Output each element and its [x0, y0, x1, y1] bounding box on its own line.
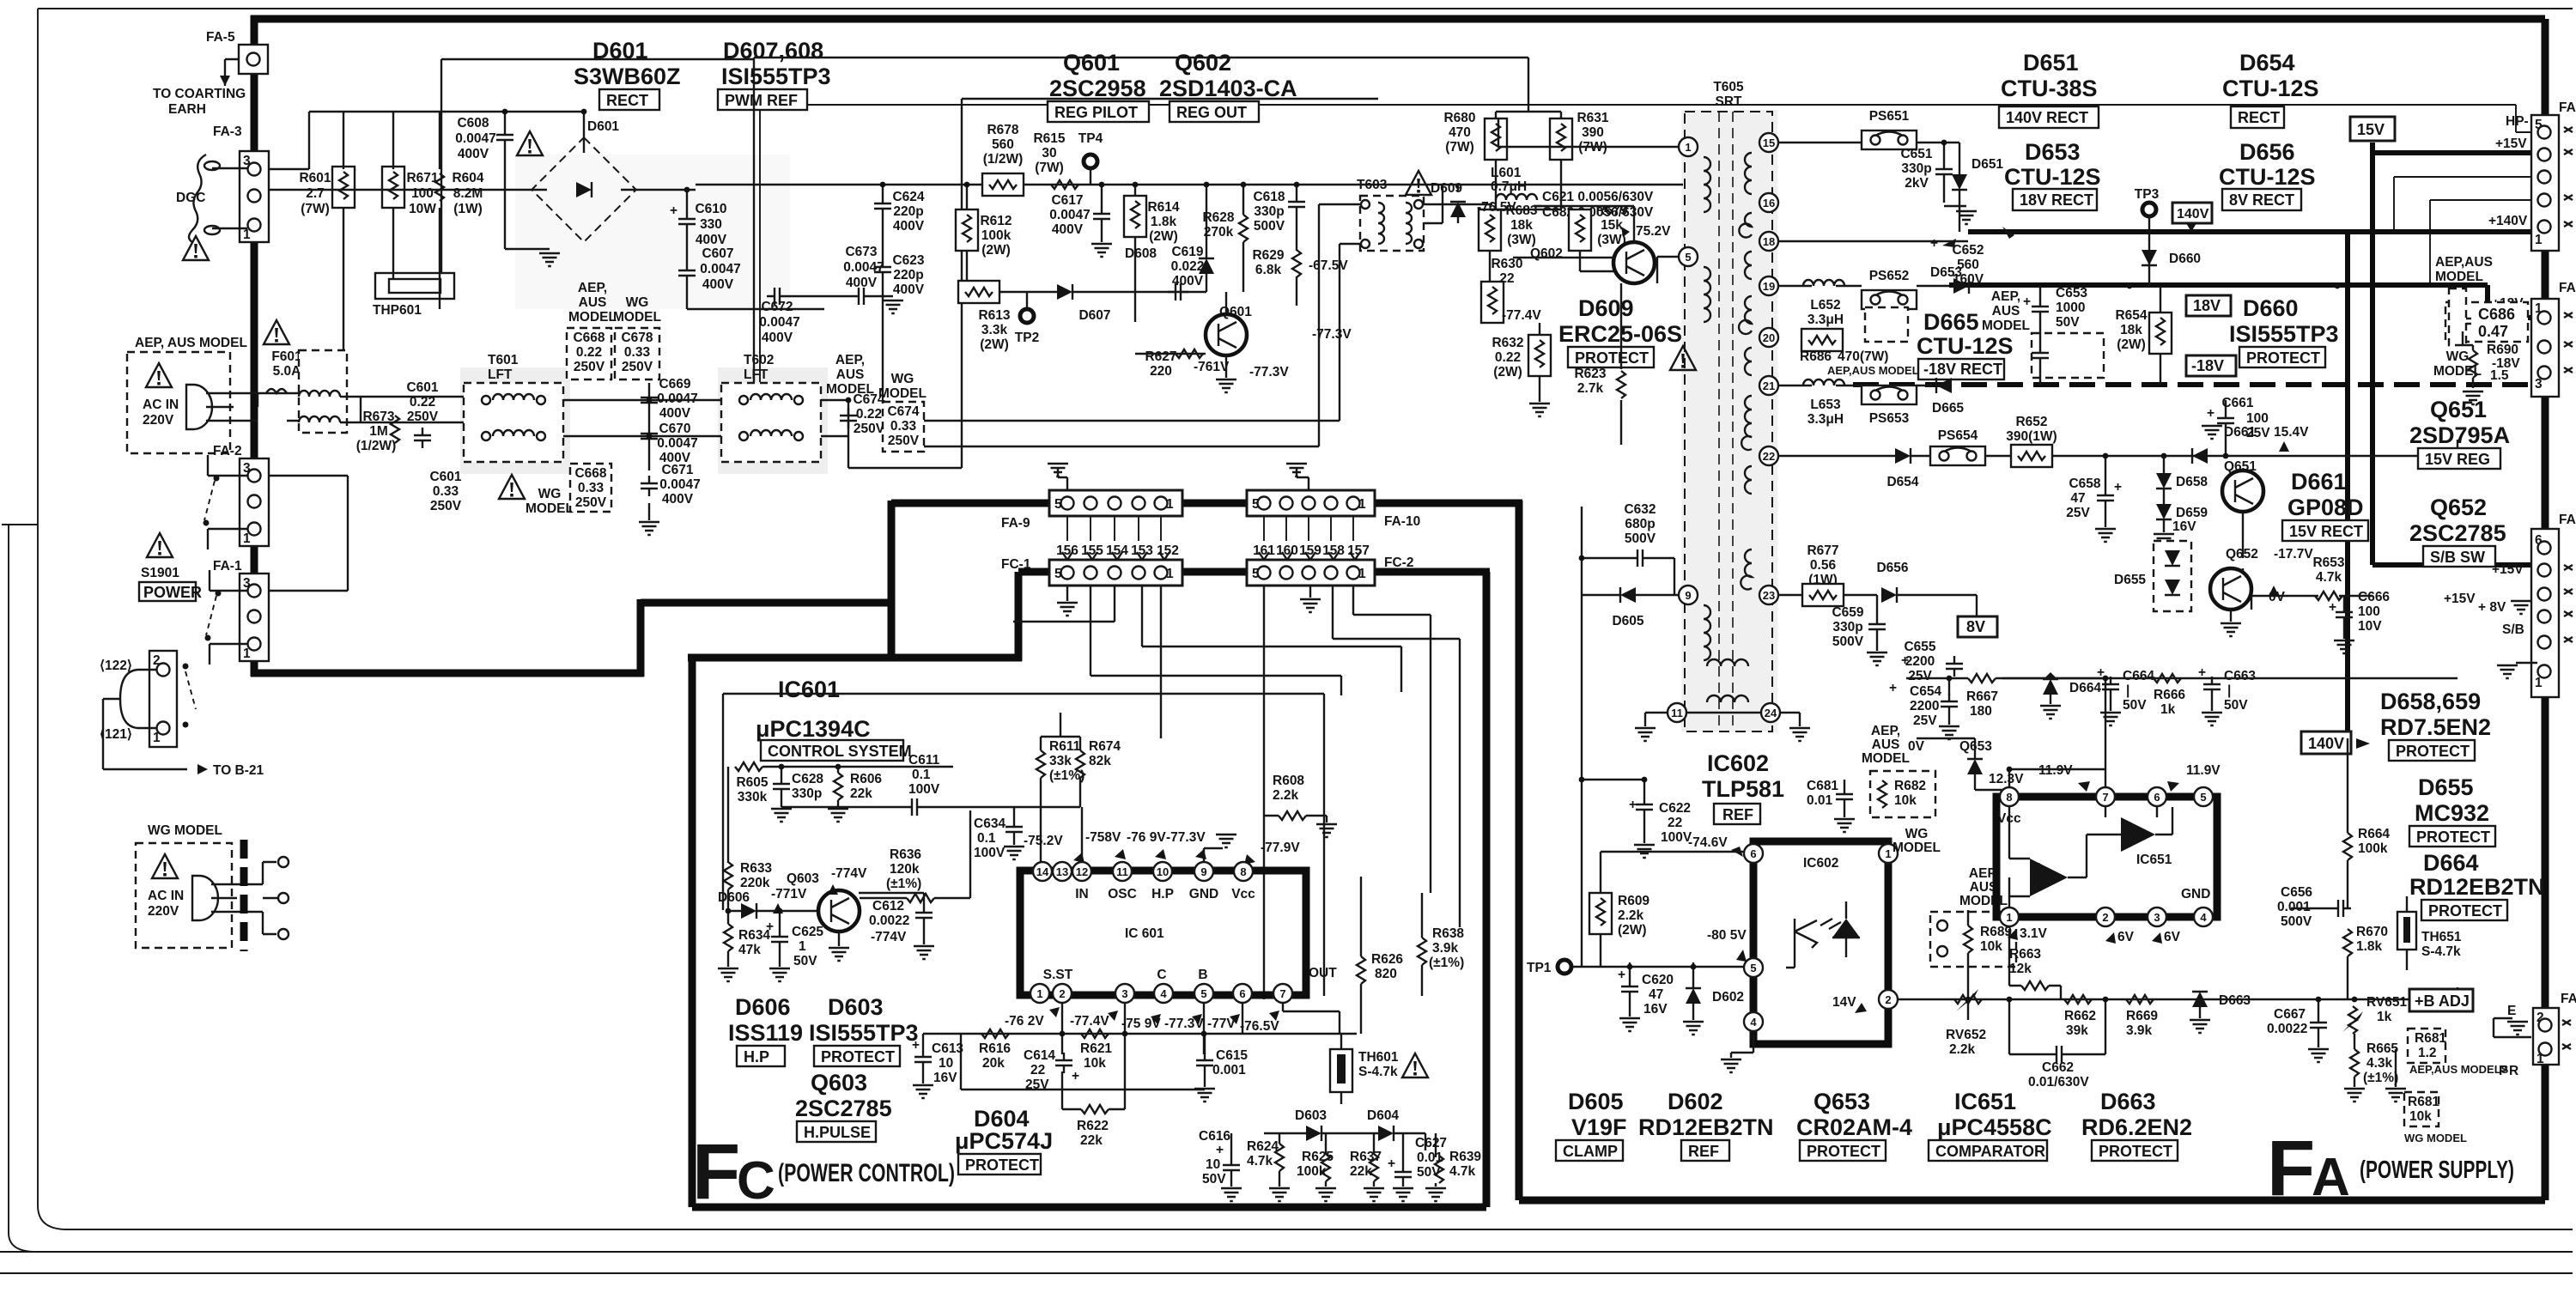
svg-text:D663: D663 — [2100, 1089, 2156, 1114]
svg-text:400V: 400V — [1052, 222, 1084, 237]
svg-text:WG: WG — [626, 295, 649, 310]
svg-text:153: 153 — [1131, 543, 1153, 558]
svg-text:25V: 25V — [1908, 669, 1932, 683]
svg-text:-76.5V: -76.5V — [1477, 200, 1516, 215]
svg-text:R686: R686 — [1800, 349, 1832, 364]
svg-text:+: + — [766, 920, 774, 934]
svg-text:5: 5 — [2200, 791, 2206, 804]
svg-text:FA-5: FA-5 — [206, 30, 235, 45]
svg-text:T601: T601 — [488, 353, 519, 367]
svg-text:R669: R669 — [2126, 1009, 2158, 1023]
svg-text:25V: 25V — [1913, 713, 1937, 728]
svg-text:140V: 140V — [2177, 207, 2209, 222]
svg-text:330: 330 — [700, 217, 722, 232]
svg-text:(2W): (2W) — [980, 337, 1009, 352]
svg-text:1: 1 — [1885, 847, 1891, 860]
svg-text:33k: 33k — [1049, 754, 1072, 768]
svg-text:1: 1 — [1685, 141, 1691, 154]
svg-text:IC 601: IC 601 — [1125, 926, 1164, 941]
svg-text:2SD795A: 2SD795A — [2409, 422, 2510, 448]
svg-text:180: 180 — [1970, 704, 1992, 719]
svg-text:156: 156 — [1056, 543, 1078, 558]
svg-text:D608: D608 — [1125, 246, 1157, 261]
svg-text:820: 820 — [1375, 967, 1397, 981]
svg-text:ISI555TP3: ISI555TP3 — [2229, 321, 2339, 347]
svg-text:PS653: PS653 — [1869, 411, 1910, 426]
svg-text:0.33: 0.33 — [578, 481, 605, 495]
svg-text:0.33: 0.33 — [624, 345, 651, 360]
svg-text:(3W): (3W) — [1507, 233, 1536, 247]
svg-text:PROTECT: PROTECT — [2428, 902, 2502, 920]
svg-text:2200: 2200 — [1910, 699, 1939, 713]
svg-text:8.2M: 8.2M — [453, 186, 483, 201]
svg-text:470: 470 — [1449, 125, 1471, 140]
svg-text:2.2k: 2.2k — [1618, 908, 1644, 923]
svg-text:IC602: IC602 — [1803, 856, 1838, 871]
svg-text:-774V: -774V — [831, 866, 867, 881]
svg-text:680p: 680p — [1625, 517, 1655, 531]
svg-text:R665: R665 — [2366, 1041, 2398, 1056]
svg-text:C668: C668 — [574, 466, 606, 481]
svg-text:50V: 50V — [2056, 315, 2080, 330]
svg-text:8: 8 — [2006, 791, 2012, 804]
svg-text:C651: C651 — [1900, 147, 1932, 161]
svg-text:RECT: RECT — [606, 92, 648, 109]
svg-text:WG: WG — [1905, 827, 1929, 841]
svg-text:-67.5V: -67.5V — [1309, 258, 1348, 273]
svg-text:MODEL: MODEL — [613, 310, 661, 325]
svg-text:D660: D660 — [2243, 295, 2299, 321]
svg-text:TP3: TP3 — [2135, 187, 2160, 202]
svg-text:D656: D656 — [2239, 139, 2295, 165]
svg-text:ISI555TP3: ISI555TP3 — [809, 1020, 919, 1046]
svg-text:+: + — [2035, 859, 2043, 874]
svg-text:0.0047: 0.0047 — [759, 315, 799, 330]
svg-text:C608: C608 — [457, 116, 489, 131]
svg-text:Q603: Q603 — [811, 1070, 867, 1096]
svg-text:-74.6V: -74.6V — [1688, 835, 1728, 850]
svg-text:(1W): (1W) — [453, 202, 483, 216]
svg-text:R613: R613 — [978, 308, 1010, 323]
svg-text:GP08D: GP08D — [2287, 495, 2364, 520]
svg-text:2SC2958: 2SC2958 — [1049, 76, 1146, 101]
svg-text:S-4.7k: S-4.7k — [1358, 1065, 1398, 1079]
svg-text:C667: C667 — [2274, 1007, 2306, 1022]
svg-text:18V RECT: 18V RECT — [2020, 191, 2093, 209]
svg-text:D659: D659 — [2176, 506, 2208, 520]
svg-text:3.3μH: 3.3μH — [1807, 412, 1844, 427]
svg-text:C623: C623 — [892, 253, 924, 268]
svg-text:6V: 6V — [2117, 930, 2135, 944]
svg-text:6: 6 — [1239, 987, 1245, 1000]
svg-text:-77.4V: -77.4V — [1070, 1014, 1109, 1029]
svg-text:1: 1 — [2537, 1052, 2544, 1066]
svg-text:6.8k: 6.8k — [1255, 263, 1282, 277]
svg-text:CLAMP: CLAMP — [1563, 1143, 1618, 1160]
svg-text:IN: IN — [1075, 887, 1089, 901]
svg-text:Q651: Q651 — [2224, 459, 2257, 474]
svg-text:MODEL: MODEL — [1982, 319, 2030, 333]
svg-text:REF: REF — [1722, 806, 1753, 823]
svg-text:3.9k: 3.9k — [1432, 941, 1459, 956]
svg-text:270k: 270k — [1204, 225, 1234, 240]
svg-text:FA: FA — [2559, 100, 2576, 115]
svg-text:C607: C607 — [702, 246, 733, 261]
svg-text:(7W): (7W) — [1445, 140, 1474, 155]
svg-text:-18V: -18V — [2191, 357, 2224, 374]
svg-text:AUS: AUS — [1992, 304, 2020, 319]
svg-text:R604: R604 — [452, 171, 483, 185]
svg-text:1: 1 — [2006, 911, 2012, 924]
svg-text:ISS119: ISS119 — [728, 1020, 803, 1046]
svg-text:IC602: IC602 — [1707, 750, 1769, 776]
svg-text:C652: C652 — [1952, 243, 1984, 258]
svg-text:0.47: 0.47 — [2478, 323, 2508, 340]
svg-text:0.56: 0.56 — [1810, 558, 1837, 573]
svg-text:100k: 100k — [981, 228, 1012, 243]
svg-text:+15V: +15V — [2492, 562, 2524, 577]
svg-text:MODEL: MODEL — [1862, 751, 1910, 766]
svg-text:PROTECT: PROTECT — [965, 1156, 1039, 1174]
svg-text:8: 8 — [1240, 865, 1246, 878]
svg-text:3.9k: 3.9k — [2126, 1023, 2153, 1038]
svg-text:400V: 400V — [893, 282, 925, 297]
svg-text:(2W): (2W) — [2117, 337, 2146, 352]
svg-text:T605: T605 — [1713, 80, 1744, 94]
svg-text:100V: 100V — [974, 846, 1005, 860]
svg-text:+: + — [912, 1038, 920, 1053]
svg-text:|: | — [2227, 683, 2231, 698]
svg-text:4: 4 — [1750, 1016, 1757, 1029]
svg-text:39k: 39k — [2066, 1023, 2088, 1038]
svg-text:R639: R639 — [1449, 1150, 1481, 1164]
svg-text:15V RECT: 15V RECT — [2289, 523, 2363, 540]
svg-text:10: 10 — [1206, 1157, 1220, 1172]
svg-text:1M: 1M — [369, 424, 388, 439]
svg-text:3: 3 — [2154, 911, 2160, 924]
svg-text:MC932: MC932 — [2415, 800, 2489, 826]
svg-text:25V: 25V — [2246, 426, 2270, 440]
svg-text:WG: WG — [891, 372, 914, 386]
svg-text:50V: 50V — [793, 954, 817, 968]
svg-text:MODEL: MODEL — [568, 310, 617, 325]
svg-text:L653: L653 — [1810, 398, 1841, 412]
svg-text:Q602: Q602 — [1175, 50, 1231, 76]
svg-text:C613: C613 — [932, 1041, 963, 1056]
svg-text:15V: 15V — [2357, 121, 2385, 138]
svg-text:REG OUT: REG OUT — [1176, 104, 1247, 121]
svg-text:⟨121⟩: ⟨121⟩ — [100, 727, 132, 742]
svg-text:2.7: 2.7 — [306, 186, 325, 201]
svg-text:0.01: 0.01 — [1807, 793, 1833, 808]
svg-text:16V: 16V — [1643, 1002, 1668, 1017]
svg-text:TLP581: TLP581 — [1702, 776, 1784, 802]
svg-text:C615: C615 — [1216, 1048, 1248, 1063]
svg-text:220p: 220p — [893, 268, 923, 282]
svg-text:-774V: -774V — [871, 930, 907, 944]
svg-text:+: + — [670, 203, 677, 218]
svg-text:R621: R621 — [1080, 1041, 1112, 1056]
svg-text:2kV: 2kV — [1905, 176, 1929, 191]
svg-text:1000: 1000 — [2056, 300, 2085, 315]
svg-text:15V REG: 15V REG — [2425, 451, 2490, 468]
svg-text:H.P: H.P — [744, 1048, 769, 1065]
svg-text:400V: 400V — [702, 277, 734, 292]
svg-text:D606: D606 — [718, 890, 750, 905]
svg-text:D605: D605 — [1568, 1089, 1624, 1114]
svg-text:-771V: -771V — [771, 887, 807, 901]
svg-text:C624: C624 — [892, 190, 924, 204]
svg-text:S1901: S1901 — [141, 566, 179, 580]
svg-text:R638: R638 — [1432, 926, 1464, 941]
svg-text:S/B SW: S/B SW — [2430, 549, 2485, 566]
svg-text:25V: 25V — [1025, 1077, 1049, 1092]
svg-text:220: 220 — [1150, 364, 1172, 379]
svg-text:5: 5 — [1750, 962, 1756, 974]
svg-text:2.2k: 2.2k — [1949, 1042, 1976, 1057]
svg-text:RECT: RECT — [2238, 109, 2280, 126]
svg-text:EARH: EARH — [168, 102, 206, 117]
svg-text:75.2V: 75.2V — [1636, 224, 1671, 239]
svg-text:2SC2785: 2SC2785 — [2409, 520, 2506, 546]
svg-text:TP1: TP1 — [1527, 961, 1552, 975]
svg-text:C670: C670 — [659, 422, 690, 436]
svg-text:0.01/630V: 0.01/630V — [2028, 1075, 2089, 1090]
svg-text:10k: 10k — [1084, 1056, 1106, 1071]
svg-text:(1/2W): (1/2W) — [356, 439, 397, 453]
svg-text:TP4: TP4 — [1078, 131, 1103, 146]
svg-text:1: 1 — [799, 939, 806, 954]
svg-text:TH651: TH651 — [2421, 930, 2462, 944]
svg-text:R622: R622 — [1077, 1119, 1109, 1133]
svg-text:1: 1 — [243, 531, 251, 546]
svg-text:CR02AM-4: CR02AM-4 — [1796, 1114, 1912, 1140]
svg-text:FA-1: FA-1 — [213, 559, 242, 574]
svg-text:R631: R631 — [1577, 111, 1608, 125]
svg-text:0.022: 0.022 — [1171, 259, 1205, 274]
svg-text:161: 161 — [1253, 543, 1275, 558]
svg-text:100V: 100V — [908, 782, 940, 797]
svg-text:(7W): (7W) — [1035, 161, 1064, 175]
svg-text:R: R — [2509, 1064, 2518, 1078]
svg-text:PROTECT: PROTECT — [821, 1048, 895, 1065]
svg-text:C658: C658 — [2069, 477, 2100, 491]
svg-text:D661: D661 — [2291, 469, 2347, 495]
svg-text:50V: 50V — [2224, 698, 2248, 713]
svg-text:0.22: 0.22 — [576, 345, 602, 360]
svg-text:0.33: 0.33 — [890, 419, 917, 434]
svg-text:R662: R662 — [2064, 1009, 2096, 1023]
svg-text:D664: D664 — [2069, 681, 2101, 695]
svg-text:R682: R682 — [1894, 779, 1926, 793]
svg-text:9: 9 — [1200, 865, 1206, 878]
svg-text:47k: 47k — [738, 943, 761, 957]
svg-text:10k: 10k — [1980, 939, 2002, 954]
svg-text:500V: 500V — [1254, 219, 1285, 234]
svg-text:+: + — [2329, 600, 2336, 615]
svg-text:(2W): (2W) — [981, 243, 1011, 258]
svg-text:4.7k: 4.7k — [1449, 1164, 1476, 1179]
svg-text:R606: R606 — [850, 772, 882, 786]
svg-text:18k: 18k — [2120, 323, 2142, 337]
svg-text:R630: R630 — [1491, 257, 1522, 271]
svg-text:μPC1394C: μPC1394C — [756, 716, 871, 742]
svg-text:(1/2W): (1/2W) — [983, 152, 1024, 167]
svg-text:9: 9 — [1685, 589, 1691, 602]
svg-text:20k: 20k — [982, 1056, 1005, 1071]
svg-text:FA: FA — [2561, 992, 2576, 1006]
svg-text:154: 154 — [1106, 543, 1128, 558]
svg-text:D605: D605 — [1612, 614, 1643, 628]
svg-text:AEP,: AEP, — [835, 353, 865, 367]
svg-text:-758V: -758V — [1085, 830, 1121, 845]
svg-text:24: 24 — [1765, 707, 1777, 719]
svg-text:PROTECT: PROTECT — [1807, 1143, 1880, 1160]
svg-text:R611: R611 — [1049, 739, 1081, 754]
svg-text:220p: 220p — [893, 204, 923, 219]
svg-text:1k: 1k — [2160, 702, 2176, 717]
svg-text:RV651: RV651 — [2366, 995, 2407, 1010]
svg-text:250V: 250V — [575, 495, 607, 510]
svg-text:Vcc: Vcc — [1231, 887, 1255, 901]
svg-text:PS654: PS654 — [1938, 428, 1978, 443]
svg-text:330k: 330k — [738, 790, 768, 804]
svg-text:RV652: RV652 — [1946, 1028, 1986, 1042]
svg-text:1: 1 — [243, 646, 251, 661]
svg-text:-17.7V: -17.7V — [2274, 547, 2313, 561]
svg-text:(±1%): (±1%) — [1429, 956, 1464, 970]
svg-text:R626: R626 — [1371, 952, 1403, 967]
svg-text:Q601: Q601 — [1063, 50, 1120, 76]
svg-text:470(7W): 470(7W) — [1838, 349, 1888, 364]
svg-text:⟨122⟩: ⟨122⟩ — [100, 659, 132, 673]
svg-text:22k: 22k — [1350, 1164, 1372, 1179]
svg-text:FC-2: FC-2 — [1384, 555, 1413, 570]
svg-text:400V: 400V — [662, 492, 694, 507]
svg-text:100k: 100k — [2358, 841, 2388, 856]
svg-text:250V: 250V — [574, 360, 605, 374]
svg-text:WG MODEL: WG MODEL — [2404, 1132, 2467, 1144]
svg-text:1: 1 — [1036, 987, 1042, 1000]
svg-text:PWM REF: PWM REF — [725, 92, 798, 109]
svg-text:1.8k: 1.8k — [1151, 215, 1177, 229]
svg-text:400V: 400V — [659, 406, 691, 421]
svg-text:1: 1 — [153, 731, 161, 745]
svg-text:C625: C625 — [792, 925, 823, 939]
svg-text:C632: C632 — [1624, 502, 1656, 517]
svg-text:2: 2 — [1885, 993, 1891, 1006]
svg-text:C654: C654 — [1910, 684, 1941, 699]
svg-text:AEP,AUS MODELS: AEP,AUS MODELS — [2409, 1063, 2509, 1076]
svg-text:R636: R636 — [890, 847, 921, 862]
svg-text:5.0A: 5.0A — [273, 364, 301, 379]
svg-text:+: + — [1629, 798, 1637, 812]
svg-text:2.2k: 2.2k — [1273, 788, 1299, 803]
svg-text:22k: 22k — [1080, 1133, 1103, 1148]
svg-text:82k: 82k — [1089, 754, 1111, 768]
svg-text:AUS: AUS — [1872, 738, 1900, 752]
svg-text:μPC4558C: μPC4558C — [1937, 1114, 2052, 1140]
svg-text:6: 6 — [1750, 847, 1756, 860]
svg-text:155: 155 — [1081, 543, 1103, 558]
svg-text:MODEL: MODEL — [1893, 841, 1941, 855]
svg-text:A: A — [2312, 1148, 2350, 1207]
svg-text:R690: R690 — [2487, 343, 2518, 357]
svg-text:OSC: OSC — [1108, 887, 1137, 901]
svg-text:C656: C656 — [2281, 885, 2312, 900]
svg-text:400V: 400V — [762, 331, 793, 345]
svg-text:159: 159 — [1299, 543, 1321, 558]
svg-text:100: 100 — [2246, 411, 2269, 426]
svg-text:12k: 12k — [2009, 962, 2032, 976]
svg-text:22: 22 — [1763, 450, 1775, 463]
svg-text:400V: 400V — [458, 147, 489, 161]
svg-text:50V: 50V — [1202, 1172, 1226, 1187]
svg-text:0.0047: 0.0047 — [659, 477, 700, 492]
svg-text:MODEL: MODEL — [2435, 270, 2483, 284]
svg-text:18k: 18k — [1510, 218, 1533, 233]
svg-text:330p: 330p — [1254, 204, 1284, 219]
svg-text:R633: R633 — [740, 861, 772, 876]
svg-text:18: 18 — [1763, 235, 1775, 248]
svg-text:8V RECT: 8V RECT — [2229, 191, 2294, 209]
svg-text:C671: C671 — [661, 463, 693, 477]
svg-text:AEP, AUS MODEL: AEP, AUS MODEL — [135, 336, 247, 350]
svg-text:CTU-12S: CTU-12S — [2222, 76, 2319, 101]
svg-text:C668: C668 — [573, 331, 605, 345]
svg-text:+ 8V: + 8V — [2478, 600, 2506, 615]
svg-text:2SC2785: 2SC2785 — [795, 1096, 892, 1121]
svg-text:D604: D604 — [1367, 1108, 1399, 1123]
svg-text:0V: 0V — [1908, 739, 1925, 754]
svg-text:MODEL: MODEL — [526, 501, 574, 516]
svg-text:TO COARTING: TO COARTING — [153, 87, 246, 101]
svg-text:R629: R629 — [1252, 248, 1284, 263]
svg-text:2SD1403-CA: 2SD1403-CA — [1159, 76, 1297, 101]
svg-text:F: F — [692, 1128, 740, 1216]
svg-text:23: 23 — [1763, 589, 1775, 602]
svg-text:C628: C628 — [792, 772, 823, 786]
svg-text:D651: D651 — [1971, 157, 2003, 172]
svg-text:0.33: 0.33 — [433, 484, 459, 499]
svg-text:Q651: Q651 — [2430, 397, 2487, 422]
svg-text:0.0022: 0.0022 — [869, 914, 909, 928]
svg-text:C669: C669 — [659, 377, 690, 392]
svg-text:R663: R663 — [2009, 947, 2041, 962]
svg-text:WG: WG — [2446, 349, 2470, 364]
svg-text:47: 47 — [1649, 987, 1663, 1002]
svg-text:(2W): (2W) — [1493, 365, 1522, 379]
svg-text:R677: R677 — [1807, 543, 1838, 558]
svg-text:7: 7 — [2102, 791, 2108, 804]
svg-text:19: 19 — [1763, 280, 1775, 293]
svg-text:+: + — [2126, 835, 2134, 850]
svg-text:C601: C601 — [429, 470, 461, 484]
svg-text:PROTECT: PROTECT — [2246, 349, 2320, 367]
svg-text:D655: D655 — [2114, 573, 2146, 587]
svg-text:20: 20 — [1763, 331, 1775, 344]
svg-text:220V: 220V — [148, 904, 179, 919]
svg-text:C659: C659 — [1832, 605, 1863, 620]
svg-text:C655: C655 — [1904, 640, 1935, 654]
svg-text:S3WB60Z: S3WB60Z — [574, 64, 681, 89]
svg-text:220V: 220V — [143, 413, 174, 428]
svg-text:FA-: FA- — [2559, 281, 2576, 295]
svg-text:AC IN: AC IN — [148, 889, 184, 903]
svg-text:C614: C614 — [1024, 1048, 1055, 1063]
svg-text:+140V: +140V — [2488, 214, 2528, 228]
svg-text:DGC: DGC — [176, 191, 205, 205]
